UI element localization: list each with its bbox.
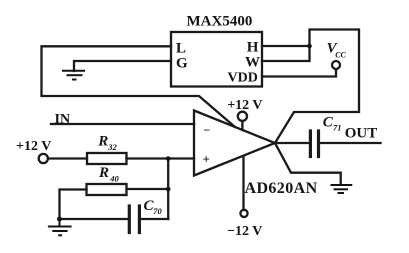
- svg-text:L: L: [176, 40, 186, 56]
- svg-text:−12 V: −12 V: [227, 224, 262, 239]
- ground symbol bottom-left: [48, 219, 72, 235]
- svg-text:OUT: OUT: [345, 126, 378, 142]
- wire H pin: [262, 45, 310, 47]
- svg-text:R: R: [97, 133, 108, 149]
- svg-text:+: +: [203, 151, 210, 166]
- wire R40 left to ground: [60, 190, 87, 220]
- wire VDD pin to Vcc terminal: [262, 69, 336, 77]
- svg-text:−: −: [204, 123, 211, 137]
- junction node B (R40 right): [166, 187, 171, 192]
- wire R40 right to node: [127, 188, 169, 190]
- wire L pin loop left: [42, 46, 236, 127]
- op-amp AD620AN triangle: [194, 111, 275, 176]
- svg-text:71: 71: [333, 123, 342, 133]
- resistor R32 body: [87, 153, 127, 164]
- MAX5400 box U2: [171, 32, 262, 87]
- wire +12V stem to op-amp: [241, 121, 243, 130]
- svg-text:32: 32: [107, 142, 117, 152]
- wire +12V to R32: [48, 157, 87, 159]
- wire node column: [167, 159, 169, 220]
- svg-text:+12 V: +12 V: [227, 98, 262, 113]
- capacitor C70 plates: [128, 206, 131, 233]
- junction node A (R32/+ input): [166, 156, 171, 161]
- svg-text:VDD: VDD: [228, 71, 258, 86]
- ground symbol top-left: [62, 71, 85, 80]
- junction node C (ground left): [57, 217, 62, 222]
- svg-text:40: 40: [109, 174, 119, 184]
- terminal +12V supply circle: [238, 112, 247, 121]
- wire W pin up to H node: [262, 30, 359, 144]
- wire IN to inverting input: [51, 123, 194, 125]
- svg-text:H: H: [247, 40, 259, 56]
- wire R32 to + input: [127, 157, 195, 159]
- junction dot H-W node: [307, 44, 312, 49]
- svg-text:70: 70: [153, 206, 162, 216]
- terminal Vcc circle: [332, 61, 340, 69]
- wire -12V stem from op-amp: [242, 157, 244, 210]
- wire ground to C70: [60, 218, 128, 220]
- terminal -12V circle: [240, 210, 247, 217]
- svg-text:MAX5400: MAX5400: [187, 14, 253, 30]
- wire G pin to ground: [74, 61, 171, 71]
- svg-text:AD620AN: AD620AN: [245, 180, 318, 197]
- wire C71 to OUT: [320, 142, 381, 144]
- wire C70 to node column: [141, 218, 168, 220]
- svg-text:CC: CC: [335, 51, 346, 60]
- ground symbol output: [331, 185, 353, 193]
- svg-text:R: R: [98, 165, 109, 181]
- capacitor C71 plates: [309, 131, 312, 157]
- svg-text:+12 V: +12 V: [16, 139, 51, 154]
- terminal +12V left circle: [39, 154, 48, 163]
- wire output to C71: [275, 142, 309, 144]
- svg-text:W: W: [245, 55, 260, 71]
- wire apex to right ground: [275, 143, 341, 184]
- svg-text:IN: IN: [55, 112, 71, 127]
- resistor R40 body: [87, 184, 127, 195]
- svg-text:G: G: [176, 55, 188, 71]
